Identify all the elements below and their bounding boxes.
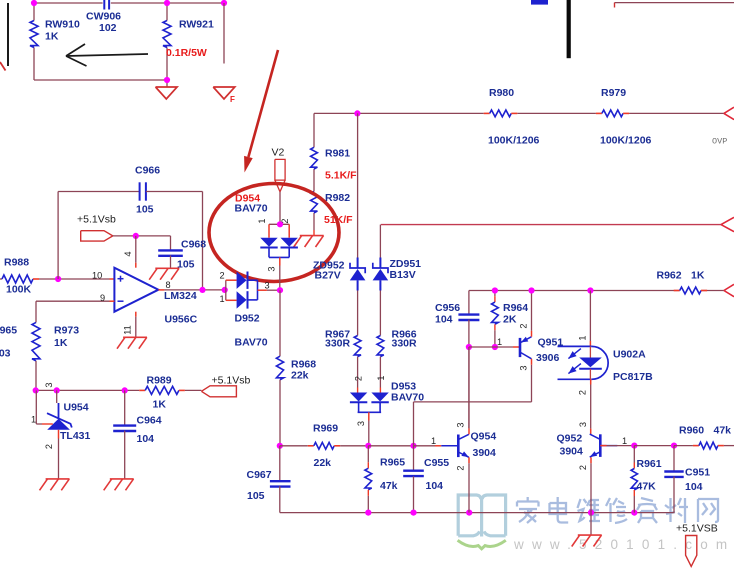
junction dots bus bbox=[365, 509, 637, 515]
ground hatch pin11 bbox=[117, 337, 147, 348]
svg-text:+5.1Vsb: +5.1Vsb bbox=[212, 375, 251, 387]
label R965 bbox=[380, 457, 405, 469]
pin 2 Q951 bbox=[519, 323, 529, 328]
wire bottom of loop bbox=[34, 80, 167, 87]
junction dot row390 left bbox=[33, 387, 39, 393]
wire right branch bbox=[223, 3, 225, 64]
value 22k R968 bbox=[291, 370, 309, 382]
wire V2 to D954 bbox=[279, 192, 281, 225]
red mark left edge bbox=[0, 62, 6, 71]
TL431 U954 bbox=[47, 413, 72, 430]
blue bar top bbox=[531, 0, 548, 5]
svg-text:330R: 330R bbox=[392, 338, 418, 350]
wire row390 bbox=[36, 389, 140, 391]
label R964 bbox=[503, 302, 528, 314]
pin 4 bbox=[123, 251, 133, 256]
label C966 bbox=[135, 165, 160, 177]
label BAV70 D953 bbox=[391, 392, 424, 404]
wire RW921 branch bbox=[166, 3, 168, 80]
wire R965 top bbox=[367, 446, 369, 469]
svg-text:47k: 47k bbox=[380, 480, 398, 492]
svg-text:2: 2 bbox=[578, 465, 588, 470]
wire RW910 branch bbox=[33, 3, 35, 80]
svg-text:1: 1 bbox=[376, 375, 386, 380]
wire Q951 emitter bbox=[531, 291, 533, 337]
junction dot Y1 left bbox=[277, 443, 283, 449]
svg-text:BAV70: BAV70 bbox=[235, 203, 268, 215]
wire ZD951 to R966 bbox=[379, 291, 381, 336]
svg-text:104: 104 bbox=[685, 481, 703, 493]
svg-text:C951: C951 bbox=[685, 467, 710, 479]
svg-text:U954: U954 bbox=[64, 402, 89, 414]
value 104 C964 bbox=[137, 433, 155, 445]
resistor R981 bbox=[311, 147, 318, 169]
label ZD952 bbox=[313, 260, 345, 272]
svg-text:3904: 3904 bbox=[560, 446, 584, 458]
wire TL431 anode bbox=[58, 430, 60, 479]
diode D953 left bbox=[350, 393, 367, 403]
label C955 bbox=[424, 457, 449, 469]
value 104 C955 bbox=[426, 480, 444, 492]
svg-text:2K: 2K bbox=[503, 314, 517, 326]
pin 8 wire bbox=[158, 289, 224, 291]
wire pin4 bbox=[135, 236, 137, 268]
black line segment left edge bbox=[7, 3, 9, 66]
svg-text:1: 1 bbox=[220, 294, 225, 304]
svg-text:10: 10 bbox=[92, 271, 102, 281]
wire C964 bottom bbox=[124, 431, 126, 479]
value 47k R965 bbox=[380, 480, 398, 492]
svg-text:U902A: U902A bbox=[613, 349, 646, 361]
svg-text:R960: R960 bbox=[679, 425, 704, 437]
ground hatch Q952 bbox=[572, 535, 602, 546]
svg-text:1: 1 bbox=[622, 436, 627, 446]
wire D952 cathode join bbox=[248, 280, 258, 300]
transistor Q954 bbox=[441, 434, 469, 457]
wire Y1 a bbox=[280, 445, 314, 447]
pin 11 wire bbox=[135, 312, 137, 338]
value 51K/F bbox=[324, 214, 353, 226]
op-amp U956C bbox=[114, 268, 158, 312]
ground triangle 1 bbox=[156, 87, 178, 99]
svg-text:B13V: B13V bbox=[390, 269, 416, 281]
wire R988 to op-amp bbox=[39, 278, 110, 280]
svg-text:D952: D952 bbox=[235, 313, 260, 325]
junction dot TL431 top bbox=[54, 387, 60, 393]
svg-text:R962: R962 bbox=[657, 270, 682, 282]
label 103 cut bbox=[0, 348, 11, 360]
svg-text:4: 4 bbox=[123, 251, 133, 256]
wire R967 to D953 bbox=[357, 357, 359, 393]
pin 2 TL431 bbox=[44, 444, 54, 449]
label B27V bbox=[315, 270, 341, 282]
wire pin9 bbox=[36, 300, 114, 302]
svg-text:2: 2 bbox=[220, 271, 225, 281]
svg-text:C956: C956 bbox=[435, 302, 460, 314]
junction dot R964 top bbox=[492, 287, 498, 293]
pin 2 stub Q954 bbox=[468, 457, 470, 463]
label D952 bbox=[235, 313, 260, 325]
wire rail 290 bbox=[469, 290, 724, 292]
svg-text:R965: R965 bbox=[0, 325, 17, 337]
wire C968 to ground bbox=[170, 255, 172, 268]
pin 2 Q954 bbox=[456, 465, 466, 470]
resistor R988 bbox=[0, 275, 39, 283]
label C956 bbox=[435, 302, 460, 314]
label TL431 bbox=[60, 430, 91, 442]
pin 3 stub D954 bbox=[279, 257, 281, 265]
svg-text:R982: R982 bbox=[325, 192, 350, 204]
label V2 bbox=[272, 147, 285, 159]
pin 3 Q954 bbox=[456, 422, 466, 427]
wire Q951 collector bbox=[531, 359, 533, 402]
svg-text:RW921: RW921 bbox=[179, 19, 214, 31]
svg-text:102: 102 bbox=[99, 22, 117, 34]
svg-text:105: 105 bbox=[247, 490, 265, 502]
wire Y1 b bbox=[334, 445, 368, 447]
label +5.1VSB bbox=[676, 523, 718, 535]
wire Q952 emitter to ground bbox=[590, 513, 592, 536]
svg-text:PC817B: PC817B bbox=[613, 371, 653, 383]
value 100K/1206 R979 bbox=[600, 135, 652, 147]
wire R960 right bbox=[718, 445, 734, 447]
label R980 bbox=[489, 87, 514, 99]
svg-text:www.520101.com: www.520101.com bbox=[513, 537, 734, 552]
watermark chinese text bbox=[517, 497, 718, 523]
value 105 C966 bbox=[136, 204, 154, 216]
transistor Q951 bbox=[520, 337, 532, 359]
diode D952 top bbox=[237, 272, 248, 289]
transistor Q952 bbox=[590, 434, 618, 457]
wire D953 common cathode bbox=[358, 402, 382, 412]
svg-text:+5.1VSB: +5.1VSB bbox=[676, 523, 718, 535]
svg-text:R988: R988 bbox=[4, 257, 29, 269]
resistor R960 bbox=[699, 442, 718, 449]
label R967 bbox=[325, 329, 350, 341]
label B13V bbox=[390, 269, 416, 281]
label +5.1Vsb top bbox=[77, 214, 116, 226]
label U954 bbox=[64, 402, 89, 414]
svg-text:2: 2 bbox=[456, 465, 466, 470]
ground hatch TL431 bbox=[40, 479, 70, 490]
label ZD951 bbox=[390, 258, 422, 270]
svg-text:R989: R989 bbox=[147, 375, 172, 387]
zener ZD951 bbox=[373, 258, 389, 291]
junction dot pin4 bbox=[133, 233, 139, 239]
diode D954 common cathode bbox=[269, 247, 289, 257]
svg-text:3: 3 bbox=[456, 422, 466, 427]
svg-text:3: 3 bbox=[578, 422, 588, 427]
value 0.1R/5W bbox=[166, 47, 207, 59]
svg-text:R980: R980 bbox=[489, 87, 514, 99]
junction dot U902A pin1 bbox=[587, 287, 593, 293]
wire Y1 d bbox=[414, 445, 442, 447]
junction dot R964 bottom bbox=[492, 344, 498, 350]
capacitor C951 bbox=[664, 446, 683, 477]
svg-text:C966: C966 bbox=[135, 165, 160, 177]
label PC817B bbox=[613, 371, 653, 383]
resistor R980 bbox=[484, 110, 518, 117]
label LM324 bbox=[164, 290, 197, 302]
resistor R973 bbox=[32, 322, 40, 361]
label D953 bbox=[391, 381, 416, 393]
resistor R969 bbox=[314, 442, 334, 449]
label R968 bbox=[291, 359, 316, 371]
wire D952 anode bar bbox=[225, 280, 227, 300]
pin 2 Q952 bbox=[578, 465, 588, 470]
wire R961 node bbox=[634, 445, 674, 447]
off-page arrow OVP2 bbox=[721, 217, 734, 231]
label BAV70 D952 bbox=[235, 337, 268, 349]
label Q952 bbox=[557, 433, 583, 445]
resistor R966 bbox=[377, 336, 384, 357]
resistor R964 bbox=[492, 291, 499, 348]
wire C956 bottom bbox=[468, 320, 470, 347]
svg-text:B27V: B27V bbox=[315, 270, 341, 282]
svg-text:R981: R981 bbox=[325, 148, 350, 160]
svg-text:OVP: OVP bbox=[712, 137, 727, 147]
svg-text:47K: 47K bbox=[637, 481, 657, 493]
red annotation ellipse bbox=[209, 184, 339, 282]
wire C966 right leg bbox=[146, 192, 203, 290]
wire top horizontal net bbox=[34, 2, 224, 4]
svg-text:100K/1206: 100K/1206 bbox=[600, 135, 652, 147]
optocoupler U902A body bbox=[558, 346, 609, 379]
svg-text:RW910: RW910 bbox=[45, 19, 80, 31]
label Q954 bbox=[471, 431, 497, 443]
wire Q954 collector bbox=[468, 347, 470, 428]
pin 2 D954 bbox=[280, 218, 290, 223]
svg-text:2: 2 bbox=[354, 376, 364, 381]
ground triangle F bbox=[213, 87, 235, 104]
wire D954 to D952 node bbox=[279, 266, 281, 291]
svg-text:105: 105 bbox=[136, 204, 154, 216]
value 1K R989 bbox=[153, 399, 167, 411]
junction dot OVP/ZD952 bbox=[354, 110, 360, 116]
wire D953 to Y1 bbox=[368, 421, 370, 446]
pin stubs D954 bbox=[269, 224, 289, 237]
diode D953 right bbox=[371, 393, 388, 403]
svg-text:1: 1 bbox=[257, 218, 267, 223]
label CW906 bbox=[86, 11, 121, 23]
svg-text:104: 104 bbox=[137, 433, 155, 445]
svg-text:11: 11 bbox=[123, 325, 133, 335]
svg-text:1: 1 bbox=[578, 335, 588, 340]
pin 3 Q951 bbox=[519, 365, 529, 370]
pin 8 bbox=[166, 280, 171, 290]
pin 2 D952 bbox=[220, 271, 225, 281]
wire node347 bbox=[469, 346, 519, 348]
pin 3 D952 bbox=[265, 281, 270, 291]
wire Q952 base bbox=[600, 445, 634, 447]
pin 3 TL431 bbox=[44, 382, 54, 387]
zener ZD952 bbox=[350, 258, 366, 291]
label R979 bbox=[601, 87, 626, 99]
svg-text:1: 1 bbox=[31, 415, 36, 425]
label C951 bbox=[685, 467, 710, 479]
resistor R962 bbox=[674, 287, 707, 294]
wire U902A pin1 bbox=[589, 291, 591, 347]
svg-text:1K: 1K bbox=[691, 270, 705, 282]
LED U902A bbox=[579, 346, 602, 379]
pin 2 D953 bbox=[354, 376, 364, 381]
wire C951 bottom bbox=[673, 477, 675, 513]
svg-text:3904: 3904 bbox=[473, 447, 497, 459]
label C964 bbox=[137, 415, 162, 427]
power flag +5.1Vsb right bbox=[81, 231, 113, 241]
ground hatch C964 bbox=[104, 479, 134, 490]
capacitor C964 bbox=[113, 390, 136, 431]
junction dot output bbox=[199, 287, 205, 293]
svg-text:330R: 330R bbox=[325, 338, 351, 350]
capacitor C968 bbox=[158, 236, 183, 256]
black arrow annotation bbox=[66, 44, 148, 66]
wire C967 bottom bbox=[279, 486, 281, 512]
junction dot C964 top bbox=[122, 387, 128, 393]
svg-text:F: F bbox=[230, 95, 235, 104]
value 104 C951 bbox=[685, 481, 703, 493]
value 100K R988 bbox=[6, 284, 32, 296]
resistor R989 bbox=[139, 386, 201, 394]
label RW910 bbox=[45, 19, 80, 31]
junction dot D952 out bbox=[277, 287, 283, 293]
wire Y1 c bbox=[368, 445, 413, 447]
power flag +5.1Vsb left bbox=[201, 386, 236, 397]
wire C966 left leg bbox=[57, 192, 59, 280]
wire R965 bottom bbox=[367, 490, 369, 513]
wire top right bbox=[615, 3, 734, 8]
pin 3 D953 bbox=[356, 421, 366, 426]
resistor RW910 bbox=[30, 21, 38, 48]
wire ZD952 net bbox=[357, 113, 359, 258]
pin 1 D953 bbox=[376, 375, 386, 380]
off-page arrow OVP bbox=[724, 107, 734, 119]
junction dot Y1 D953 bbox=[365, 443, 371, 449]
diode D954 left bbox=[260, 238, 277, 248]
light arrows U902A bbox=[568, 349, 581, 374]
svg-text:LM324: LM324 bbox=[164, 290, 197, 302]
watermark url text bbox=[513, 537, 734, 552]
capacitor C967 bbox=[270, 446, 291, 487]
diode D954 pin rail bbox=[269, 223, 289, 225]
svg-text:U956C: U956C bbox=[165, 314, 198, 326]
label C968 bbox=[181, 239, 206, 251]
svg-text:103: 103 bbox=[0, 348, 11, 360]
junction dot D952 anode bbox=[222, 287, 228, 293]
wire C966 top bbox=[58, 191, 140, 193]
svg-text:0.1R/5W: 0.1R/5W bbox=[166, 47, 207, 59]
svg-text:CW906: CW906 bbox=[86, 11, 121, 23]
wire R966 to D953 bbox=[379, 357, 381, 393]
svg-text:2: 2 bbox=[44, 444, 54, 449]
label D954 bbox=[235, 193, 260, 205]
svg-text:R964: R964 bbox=[503, 302, 528, 314]
value 2K R964 bbox=[503, 314, 517, 326]
resistor RW921 bbox=[163, 21, 171, 48]
label R982 bbox=[325, 192, 350, 204]
svg-text:3: 3 bbox=[267, 266, 277, 271]
label R965 cut bbox=[0, 325, 17, 337]
value 1K R973 bbox=[54, 337, 68, 349]
pin 10 bbox=[92, 271, 102, 281]
svg-text:Q954: Q954 bbox=[471, 431, 497, 443]
svg-text:3: 3 bbox=[519, 365, 529, 370]
off-page arrow rail bbox=[724, 284, 734, 296]
svg-text:22k: 22k bbox=[291, 370, 309, 382]
junction dot Y1 C955 bbox=[410, 443, 416, 449]
svg-text:9: 9 bbox=[100, 293, 105, 303]
pin 1 Q951 bbox=[497, 337, 502, 347]
wire U902A pin2 bbox=[590, 379, 592, 435]
svg-text:1: 1 bbox=[497, 337, 502, 347]
junction dot V2/D954 bbox=[277, 221, 283, 227]
svg-text:22k: 22k bbox=[314, 457, 332, 469]
pin 1 U902A bbox=[578, 335, 588, 340]
wire R968 to Y1 bbox=[279, 380, 281, 446]
wire ZD952 to R967 bbox=[357, 291, 359, 336]
svg-text:100K: 100K bbox=[6, 284, 32, 296]
red annotation arrow bbox=[244, 50, 278, 173]
label R960 bbox=[679, 425, 704, 437]
wire C955 bottom bbox=[413, 476, 415, 512]
svg-text:Q952: Q952 bbox=[557, 433, 583, 445]
label +5.1Vsb right bbox=[212, 375, 251, 387]
wire Q951 collector across bbox=[414, 402, 532, 446]
label BAV70 D954 bbox=[235, 203, 268, 215]
svg-text:104: 104 bbox=[426, 480, 444, 492]
label U956C bbox=[165, 314, 198, 326]
wire R960 bbox=[674, 445, 699, 447]
svg-text:1K: 1K bbox=[54, 337, 68, 349]
value 104 C956 bbox=[435, 314, 453, 326]
value 100K/1206 R980 bbox=[488, 135, 540, 147]
label R973 bbox=[54, 325, 79, 337]
pin 3 D954 bbox=[267, 266, 277, 271]
svg-text:5.1K/F: 5.1K/F bbox=[325, 170, 357, 182]
wire ZD951 net bbox=[379, 225, 381, 258]
pin 1 TL431 bbox=[31, 415, 36, 425]
junction dot node347 left bbox=[466, 344, 472, 350]
svg-text:+5.1Vsb: +5.1Vsb bbox=[77, 214, 116, 226]
wire node to R968 bbox=[279, 290, 281, 356]
resistor R967 bbox=[354, 336, 361, 357]
junction dots top loop bbox=[31, 0, 227, 83]
value 105 C967 bbox=[247, 490, 265, 502]
svg-text:105: 105 bbox=[177, 259, 195, 271]
value 330R R966 bbox=[392, 338, 418, 350]
port V2 bbox=[275, 159, 285, 191]
pin 1 D952 bbox=[220, 294, 225, 304]
value 5.1K/F bbox=[325, 170, 357, 182]
black thick line bbox=[567, 0, 571, 58]
label 3906 Q951 bbox=[536, 352, 560, 364]
svg-text:R973: R973 bbox=[54, 325, 79, 337]
diode D954 right bbox=[281, 238, 298, 248]
label U902A bbox=[613, 349, 646, 361]
label R989 bbox=[147, 375, 172, 387]
svg-text:1K: 1K bbox=[45, 31, 59, 43]
junction dot pin10/C966 bbox=[55, 276, 61, 282]
pin 3 stub Q954 bbox=[468, 428, 470, 434]
capacitor C955 bbox=[403, 446, 424, 476]
pin 1 stub D952 bbox=[226, 299, 237, 301]
label R966 bbox=[392, 329, 417, 341]
value 1K RW910 bbox=[45, 31, 59, 43]
resistor R979 bbox=[596, 110, 629, 117]
pin 3 stub D953 bbox=[368, 412, 370, 420]
pin 2 stub D952 bbox=[226, 279, 237, 281]
value 105 C968 bbox=[177, 259, 195, 271]
